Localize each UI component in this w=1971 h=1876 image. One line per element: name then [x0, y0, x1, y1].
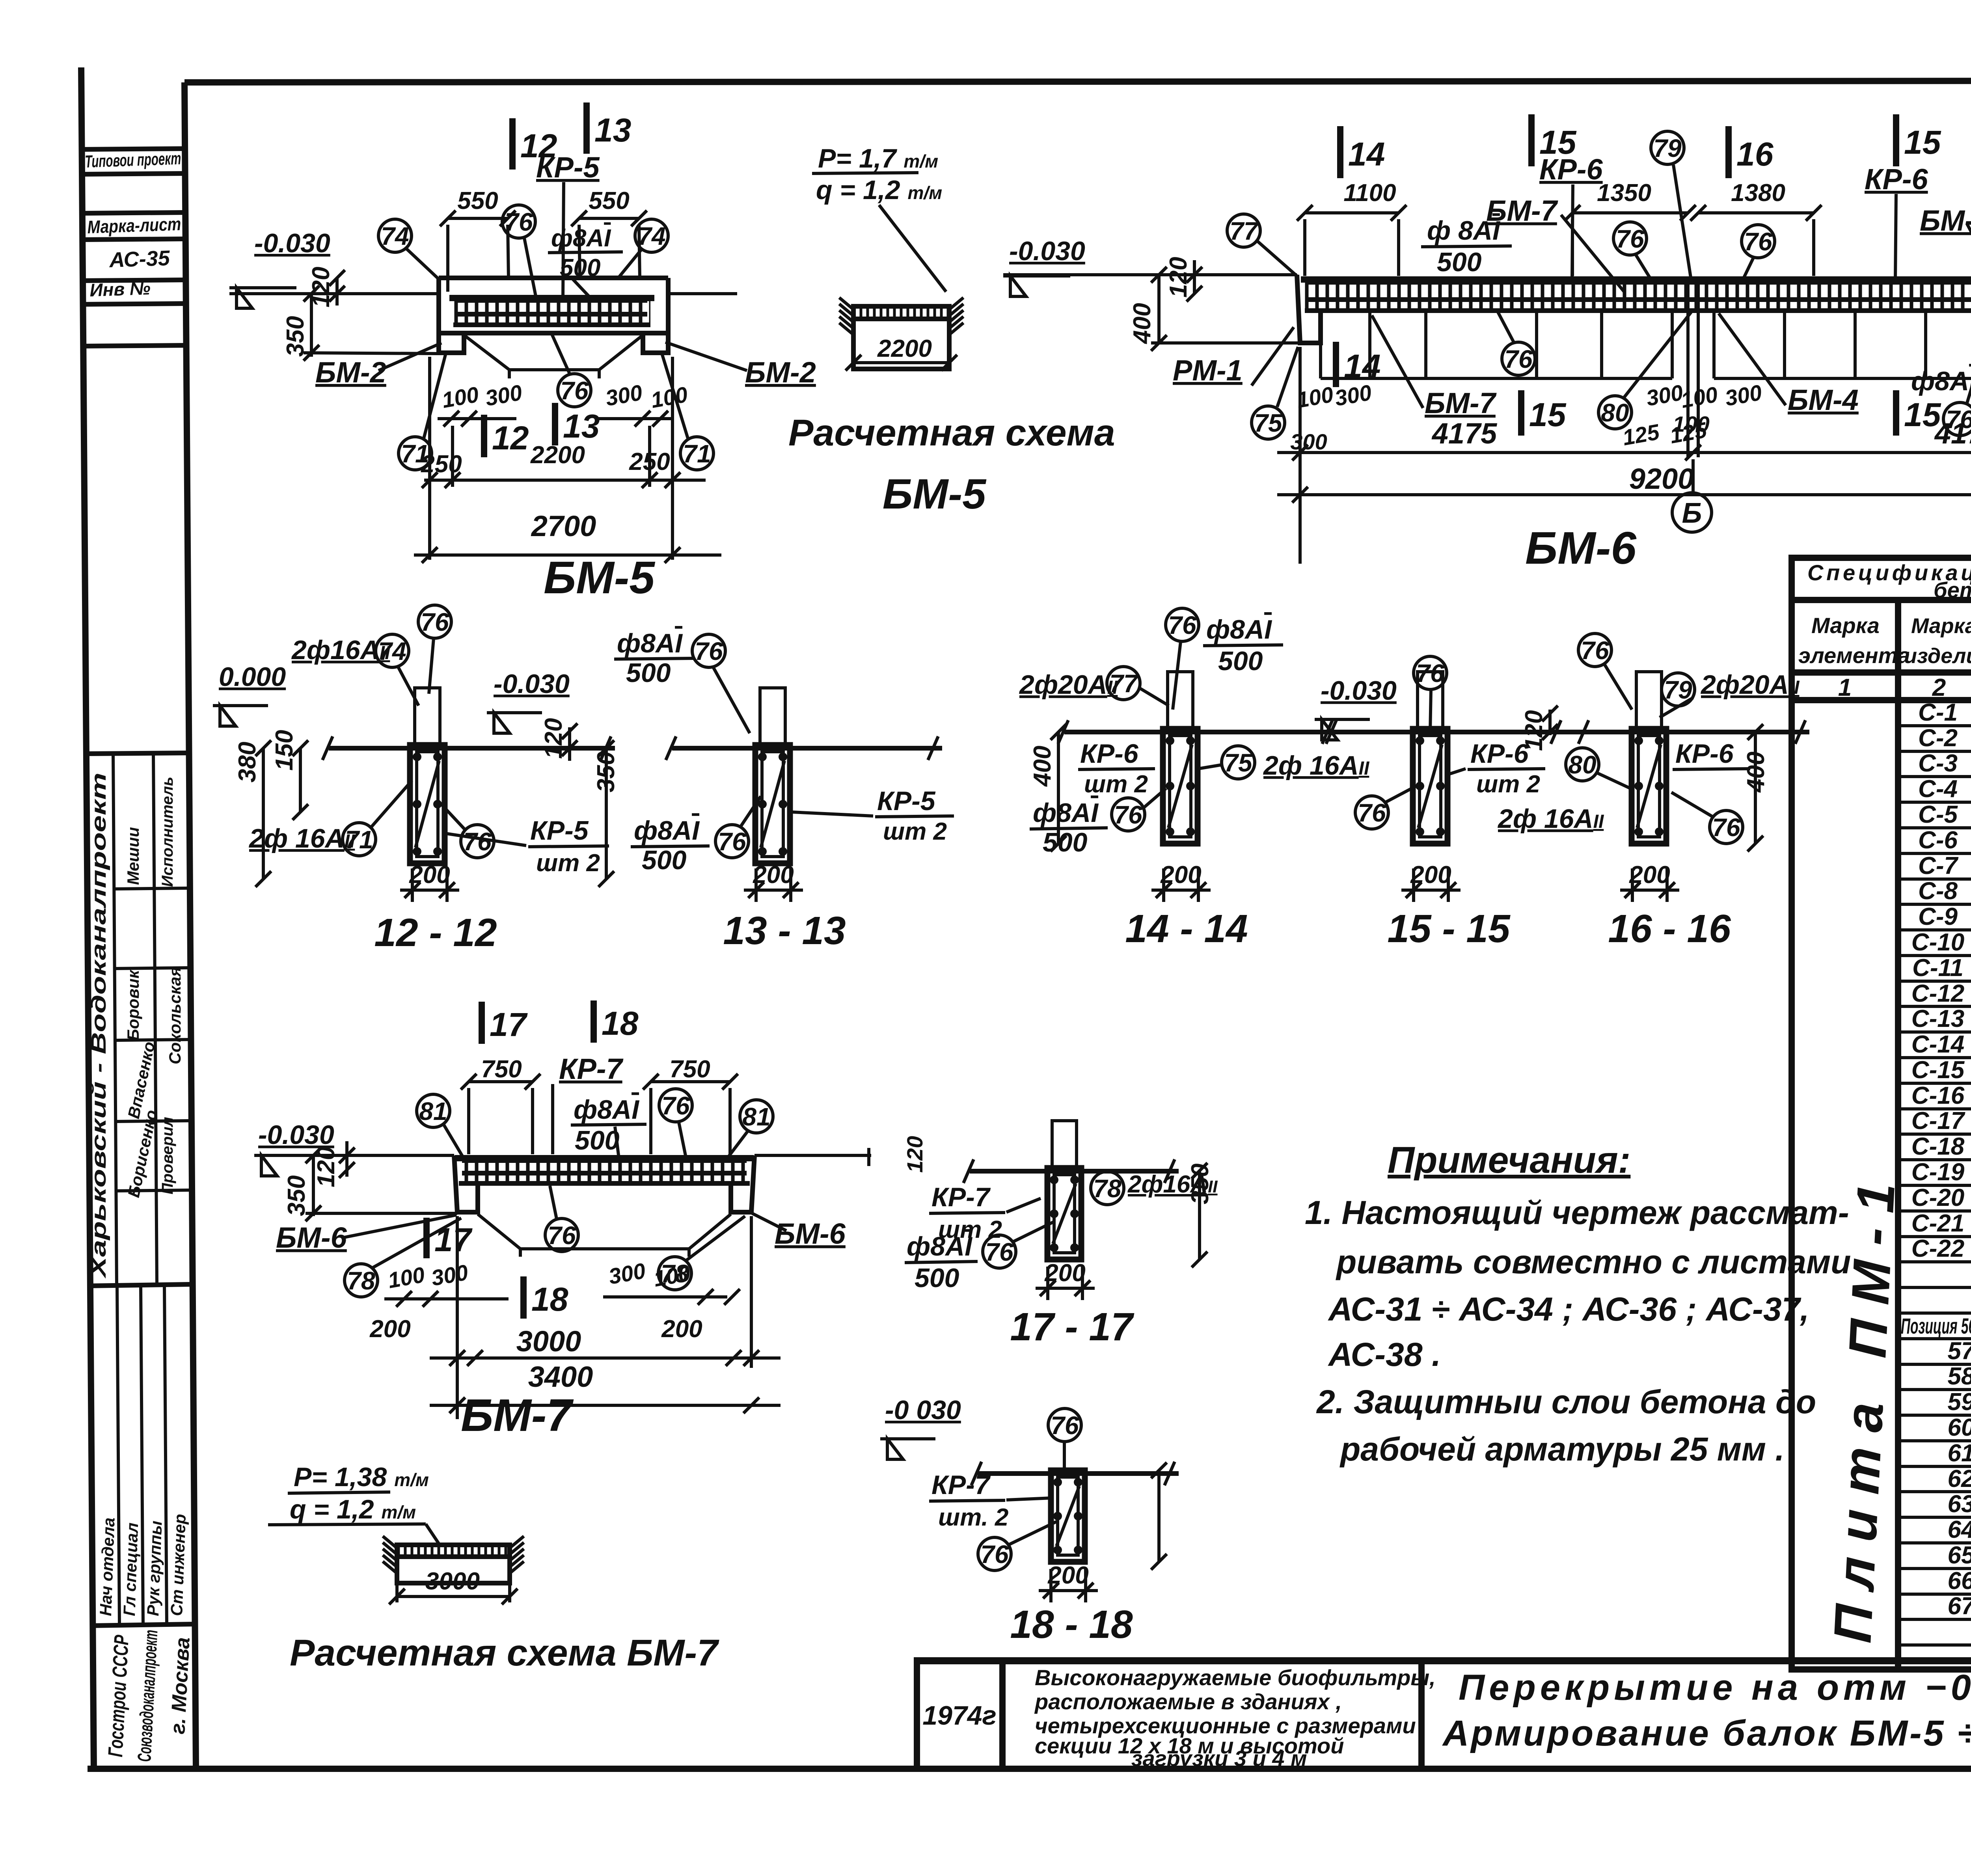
svg-text:С-19: С-19	[1911, 1159, 1965, 1186]
svg-text:ф8АI: ф8АI	[1033, 798, 1099, 828]
svg-text:Боровик: Боровик	[124, 969, 142, 1041]
svg-text:Расчетная схема: Расчетная схема	[788, 412, 1115, 454]
left title strip	[82, 149, 194, 1762]
box АС-35	[83, 280, 186, 281]
svg-text:С-5: С-5	[1918, 801, 1958, 828]
svg-text:Примечания:: Примечания:	[1388, 1139, 1630, 1181]
svg-text:13: 13	[594, 112, 631, 149]
svg-text:78: 78	[1093, 1174, 1121, 1203]
svg-text:2ф 16АII: 2ф 16АII	[248, 823, 356, 853]
section 18-18	[880, 1395, 1179, 1647]
svg-text:76: 76	[1051, 1411, 1079, 1440]
svg-text:q = 1,2 т/м: q = 1,2 т/м	[816, 175, 942, 205]
svg-text:КР-5: КР-5	[536, 151, 600, 184]
svg-text:БМ-6: БМ-6	[775, 1217, 846, 1250]
svg-text:79: 79	[1653, 134, 1682, 162]
svg-text:БМ-4: БМ-4	[1788, 384, 1859, 416]
svg-text:г. Москва: г. Москва	[166, 1637, 194, 1735]
svg-text:Мешии: Мешии	[124, 827, 142, 885]
svg-text:0.000: 0.000	[219, 662, 286, 692]
svg-text:2700: 2700	[531, 510, 596, 542]
svg-text:ф8АI: ф8АI	[574, 1095, 640, 1125]
svg-text:200: 200	[1044, 1259, 1085, 1287]
svg-text:500: 500	[915, 1263, 959, 1293]
svg-text:16 - 16: 16 - 16	[1608, 907, 1731, 951]
svg-text:59: 59	[1948, 1388, 1971, 1416]
svg-text:17: 17	[434, 1221, 473, 1258]
svg-text:С-18: С-18	[1911, 1133, 1965, 1160]
svg-text:Впасенко: Впасенко	[124, 1040, 158, 1120]
section 12-12	[213, 605, 620, 955]
svg-text:380: 380	[234, 742, 261, 782]
svg-text:76: 76	[1712, 813, 1740, 842]
svg-text:Высоконагружаемые биофильтры,: Высоконагружаемые биофильтры,	[1035, 1665, 1436, 1690]
svg-text:80: 80	[1568, 751, 1596, 779]
svg-text:загрузки 3 и 4 м: загрузки 3 и 4 м	[1131, 1746, 1307, 1771]
svg-text:74: 74	[378, 637, 406, 665]
svg-text:БМ-6: БМ-6	[276, 1221, 347, 1254]
svg-text:4175: 4175	[1934, 417, 1971, 450]
svg-text:-0.030: -0.030	[1321, 676, 1397, 706]
beam БМ-5 elevation	[229, 102, 816, 603]
svg-text:550: 550	[589, 187, 629, 214]
svg-text:76: 76	[1114, 801, 1142, 829]
svg-text:шт 2: шт 2	[536, 850, 600, 877]
svg-text:500: 500	[1437, 247, 1482, 277]
svg-text:100: 100	[440, 382, 481, 413]
svg-text:С-1: С-1	[1918, 699, 1958, 726]
svg-text:15: 15	[1529, 396, 1567, 433]
svg-text:81: 81	[742, 1103, 770, 1131]
svg-text:ф8АI: ф8АI	[634, 816, 700, 846]
svg-text:400: 400	[1129, 303, 1156, 345]
svg-text:расположаемые в зданиях ,: расположаемые в зданиях ,	[1034, 1689, 1342, 1714]
svg-text:18 - 18: 18 - 18	[1010, 1602, 1133, 1647]
svg-text:74: 74	[381, 222, 409, 250]
svg-text:3000: 3000	[516, 1325, 581, 1358]
svg-text:рабочей арматуры 25 мм .: рабочей арматуры 25 мм .	[1339, 1431, 1785, 1468]
svg-text:120: 120	[902, 1136, 927, 1173]
svg-text:64: 64	[1948, 1516, 1971, 1543]
svg-text:КР-6: КР-6	[1675, 739, 1734, 769]
svg-text:С-14: С-14	[1911, 1031, 1964, 1058]
svg-text:76: 76	[548, 1221, 576, 1250]
svg-text:Плита ПМ-1: Плита ПМ-1	[1822, 1167, 1907, 1645]
svg-text:13 - 13: 13 - 13	[723, 909, 846, 953]
svg-text:КР-6: КР-6	[1080, 739, 1139, 769]
svg-text:100: 100	[649, 382, 689, 413]
svg-text:P= 1,7 т/м: P= 1,7 т/м	[818, 143, 938, 173]
svg-text:ривать совместно с листами: ривать совместно с листами	[1336, 1243, 1851, 1280]
svg-text:Ст инженер: Ст инженер	[167, 1514, 189, 1617]
svg-text:750: 750	[669, 1056, 710, 1083]
svg-text:300: 300	[429, 1260, 470, 1291]
svg-text:-0.030: -0.030	[258, 1120, 334, 1150]
svg-text:2ф 16АII: 2ф 16АII	[1263, 751, 1370, 781]
svg-text:12 - 12: 12 - 12	[374, 911, 497, 955]
svg-text:78: 78	[347, 1267, 375, 1295]
svg-text:18: 18	[602, 1005, 639, 1042]
svg-text:60: 60	[1948, 1414, 1971, 1441]
svg-text:9200: 9200	[1629, 462, 1694, 495]
svg-text:4175: 4175	[1431, 417, 1498, 450]
svg-text:100: 100	[1679, 382, 1720, 413]
svg-text:С-12: С-12	[1911, 980, 1964, 1007]
svg-text:76: 76	[505, 208, 533, 236]
svg-text:КР-7: КР-7	[559, 1053, 624, 1085]
svg-text:Госстрои СССР: Госстрои СССР	[104, 1634, 133, 1758]
left half verticals	[1895, 600, 1901, 1669]
svg-text:71: 71	[345, 825, 373, 854]
svg-text:АС-31 ÷ АС-34 ; АС-36 ; АС-: АС-31 ÷ АС-34 ; АС-36 ; АС-37,	[1328, 1291, 1809, 1328]
svg-text:550: 550	[457, 187, 498, 214]
svg-text:БМ-5: БМ-5	[883, 470, 987, 518]
signature block	[86, 753, 189, 754]
svg-text:200: 200	[661, 1315, 702, 1343]
svg-text:76: 76	[1616, 225, 1644, 253]
beam БМ-6 elevation	[1003, 114, 1971, 574]
design scheme БМ-7	[268, 1462, 719, 1674]
svg-text:76: 76	[985, 1238, 1013, 1266]
box Инв №	[83, 304, 186, 304]
svg-text:81: 81	[419, 1097, 447, 1125]
svg-text:БМ-2: БМ-2	[315, 356, 386, 389]
svg-text:БМ-5: БМ-5	[544, 552, 655, 603]
svg-text:18: 18	[531, 1281, 568, 1318]
svg-text:КР-7: КР-7	[931, 1182, 991, 1212]
svg-text:57: 57	[1948, 1338, 1971, 1365]
svg-text:1380: 1380	[1731, 179, 1785, 207]
svg-text:С-13: С-13	[1911, 1005, 1964, 1032]
svg-text:16: 16	[1736, 136, 1774, 173]
svg-text:150: 150	[271, 730, 298, 771]
svg-text:500: 500	[560, 254, 600, 281]
svg-text:С-22: С-22	[1911, 1235, 1964, 1262]
svg-text:300: 300	[1290, 429, 1327, 454]
svg-text:Позиция 56: Позиция 56	[1901, 1313, 1971, 1338]
svg-text:АС-38 .: АС-38 .	[1328, 1336, 1441, 1373]
svg-text:75: 75	[1224, 749, 1253, 777]
svg-text:76: 76	[1168, 611, 1196, 639]
svg-text:Инв №: Инв №	[89, 278, 151, 300]
svg-text:250: 250	[421, 451, 462, 478]
svg-text:1974г: 1974г	[922, 1701, 997, 1731]
svg-text:15: 15	[1904, 124, 1941, 161]
svg-text:-0.030: -0.030	[494, 669, 570, 699]
svg-text:ф8АI: ф8АI	[551, 225, 611, 252]
svg-text:Проверил: Проверил	[159, 1117, 176, 1194]
svg-text:76: 76	[560, 376, 589, 405]
svg-text:-0.030: -0.030	[254, 228, 330, 258]
svg-text:С-4: С-4	[1918, 775, 1958, 803]
svg-text:350: 350	[283, 1176, 310, 1216]
specification table	[1792, 558, 1971, 1669]
svg-text:Армирование балок БМ-5 ÷ БМ-: Армирование балок БМ-5 ÷ БМ-7.	[1442, 1713, 1971, 1753]
svg-text:200: 200	[1160, 861, 1201, 889]
svg-text:500: 500	[1218, 646, 1263, 676]
svg-text:С-6: С-6	[1918, 827, 1958, 854]
svg-text:Марка: Марка	[1811, 613, 1880, 638]
svg-text:Харьковский - Водоканалпроект: Харьковский - Водоканалпроект	[88, 773, 110, 1279]
svg-text:С-21: С-21	[1911, 1210, 1964, 1237]
empty box	[84, 345, 186, 346]
svg-text:76: 76	[421, 608, 449, 636]
svg-text:С-10: С-10	[1911, 929, 1964, 956]
svg-text:500: 500	[626, 658, 671, 688]
svg-text:76: 76	[1581, 636, 1609, 665]
svg-text:200: 200	[1410, 861, 1451, 889]
svg-text:С-8: С-8	[1918, 877, 1958, 905]
notes Примечания	[1305, 1139, 1851, 1468]
svg-text:15 - 15: 15 - 15	[1387, 907, 1511, 951]
svg-text:66: 66	[1948, 1567, 1971, 1595]
svg-text:С-2: С-2	[1918, 725, 1958, 752]
svg-text:шт 2: шт 2	[1476, 771, 1540, 798]
svg-text:С-7: С-7	[1918, 852, 1958, 879]
svg-text:ф8АI: ф8АI	[617, 628, 683, 658]
svg-text:300: 300	[1723, 380, 1764, 411]
svg-text:120: 120	[1520, 710, 1548, 751]
svg-text:62: 62	[1948, 1465, 1971, 1492]
svg-text:300: 300	[607, 1258, 647, 1289]
svg-text:КР-5: КР-5	[877, 786, 936, 816]
svg-text:Марка-лист: Марка-лист	[87, 214, 182, 237]
svg-text:300: 300	[483, 380, 524, 411]
svg-text:17 - 17: 17 - 17	[1010, 1305, 1135, 1349]
svg-text:120: 120	[1165, 257, 1192, 298]
svg-text:КР-7: КР-7	[931, 1470, 991, 1500]
svg-text:С-9: С-9	[1918, 903, 1958, 930]
box Марка-лист	[83, 212, 186, 213]
svg-text:61: 61	[1948, 1440, 1971, 1467]
beam БМ-7 elevation	[254, 1000, 871, 1441]
svg-text:71: 71	[683, 440, 711, 468]
svg-text:1350: 1350	[1597, 179, 1651, 207]
svg-text:13: 13	[563, 408, 600, 445]
svg-text:500: 500	[642, 845, 687, 875]
svg-text:БМ-7: БМ-7	[1920, 204, 1971, 237]
svg-text:200: 200	[369, 1315, 410, 1343]
svg-text:Исполнитель: Исполнитель	[159, 777, 176, 887]
svg-text:Типовои проект: Типовои проект	[85, 149, 182, 171]
svg-text:ф8АI: ф8АI	[907, 1231, 973, 1261]
svg-text:-0 030: -0 030	[885, 1395, 961, 1425]
svg-text:P= 1,38 т/м: P= 1,38 т/м	[294, 1462, 429, 1492]
svg-text:С-16: С-16	[1911, 1082, 1965, 1109]
svg-text:17: 17	[490, 1006, 528, 1043]
svg-text:300: 300	[1644, 380, 1685, 411]
svg-text:ф 8АI: ф 8АI	[1427, 216, 1501, 246]
section 14-14	[1019, 608, 1370, 951]
svg-text:3000: 3000	[425, 1568, 480, 1595]
bottom org block	[90, 1624, 194, 1626]
svg-text:Союзводоканалпроект: Союзводоканалпроект	[134, 1629, 162, 1762]
svg-text:С-20: С-20	[1911, 1184, 1964, 1211]
svg-text:Рук группы: Рук группы	[143, 1520, 165, 1616]
box Типовои проект	[82, 149, 185, 149]
svg-text:БМ-7: БМ-7	[461, 1390, 574, 1441]
svg-text:БМ-7: БМ-7	[1425, 387, 1497, 419]
outer box	[1792, 558, 1971, 1669]
svg-text:С-17: С-17	[1911, 1107, 1965, 1135]
svg-text:3400: 3400	[528, 1360, 593, 1393]
svg-text:63: 63	[1948, 1490, 1971, 1518]
section 13-13	[614, 628, 954, 953]
svg-text:2200: 2200	[530, 442, 585, 469]
svg-text:Нач отдела: Нач отдела	[96, 1517, 118, 1617]
svg-text:350: 350	[282, 316, 309, 357]
svg-text:Сокольская: Сокольская	[166, 967, 184, 1064]
svg-text:76: 76	[980, 1540, 1009, 1569]
bottom title block	[917, 1660, 1971, 1818]
svg-text:РМ-1: РМ-1	[1173, 354, 1243, 387]
svg-text:14: 14	[1348, 136, 1385, 173]
svg-text:76: 76	[463, 827, 492, 856]
svg-text:58: 58	[1948, 1363, 1971, 1390]
svg-text:75: 75	[1254, 409, 1283, 437]
svg-text:500: 500	[575, 1125, 620, 1155]
svg-text:-0.030: -0.030	[1009, 236, 1085, 266]
svg-text:300: 300	[604, 380, 644, 411]
svg-text:2ф 16АII: 2ф 16АII	[1497, 804, 1604, 834]
svg-text:750: 750	[481, 1056, 522, 1083]
section 15-15	[1315, 656, 1593, 951]
svg-text:Б: Б	[1682, 497, 1702, 529]
svg-text:БМ-6: БМ-6	[1525, 522, 1637, 574]
section 17-17	[902, 1121, 1218, 1349]
svg-text:1100: 1100	[1343, 179, 1396, 207]
svg-text:2ф20АII: 2ф20АII	[1700, 670, 1800, 700]
svg-text:200: 200	[409, 861, 450, 889]
svg-text:Перекрытие на отм −0.030.: Перекрытие на отм −0.030.	[1459, 1667, 1971, 1708]
svg-text:1. Настоящий чертеж рассмат-: 1. Настоящий чертеж рассмат-	[1305, 1194, 1849, 1231]
svg-text:элемента: элемента	[1798, 643, 1910, 668]
svg-text:76: 76	[695, 637, 723, 665]
svg-text:500: 500	[1043, 827, 1088, 857]
svg-text:12: 12	[492, 419, 529, 456]
design scheme БМ-5	[788, 143, 1115, 518]
svg-text:ф8АI: ф8АI	[1206, 615, 1272, 645]
svg-text:65: 65	[1948, 1542, 1971, 1569]
svg-text:74: 74	[637, 222, 665, 250]
svg-text:Марка: Марка	[1911, 614, 1971, 638]
svg-text:77: 77	[1109, 669, 1139, 698]
svg-text:q = 1,2 т/м: q = 1,2 т/м	[290, 1494, 416, 1524]
svg-text:изделия: изделия	[1904, 644, 1971, 668]
svg-text:БМ-2: БМ-2	[745, 356, 816, 389]
svg-text:шт 2: шт 2	[1084, 771, 1148, 798]
svg-text:100: 100	[386, 1262, 427, 1293]
svg-text:67: 67	[1948, 1593, 1971, 1620]
svg-text:76: 76	[1504, 345, 1533, 373]
svg-text:Гл специал: Гл специал	[120, 1522, 142, 1617]
svg-text:76: 76	[1744, 227, 1772, 256]
svg-text:14: 14	[1344, 348, 1380, 385]
svg-text:КР-6: КР-6	[1539, 153, 1603, 186]
svg-text:шт. 2: шт. 2	[938, 1504, 1008, 1531]
svg-text:400: 400	[1029, 746, 1056, 787]
left data rows	[1898, 699, 1971, 1645]
svg-text:200: 200	[1047, 1562, 1088, 1589]
titles block	[88, 1284, 192, 1286]
svg-text:КР-5: КР-5	[530, 816, 589, 846]
svg-text:200: 200	[753, 861, 794, 889]
svg-text:14 - 14: 14 - 14	[1125, 907, 1248, 951]
section 16-16	[1497, 633, 1809, 951]
svg-text:76: 76	[718, 827, 746, 856]
svg-text:С-11: С-11	[1912, 954, 1964, 982]
svg-text:КР-6: КР-6	[1865, 163, 1928, 196]
svg-text:200: 200	[1629, 861, 1670, 889]
svg-text:Расчетная схема БМ-7: Расчетная схема БМ-7	[290, 1632, 719, 1674]
svg-text:С-3: С-3	[1918, 750, 1958, 777]
svg-text:77: 77	[1230, 217, 1259, 245]
svg-text:шт 2: шт 2	[883, 818, 947, 845]
svg-text:С-15: С-15	[1911, 1056, 1965, 1084]
svg-text:2. Защитныи слои бетона до: 2. Защитныи слои бетона до	[1316, 1383, 1816, 1420]
svg-text:80: 80	[1601, 399, 1629, 427]
svg-text:2200: 2200	[877, 335, 932, 362]
svg-text:ф8АI 500: ф8АI 500	[1911, 366, 1971, 396]
svg-text:76: 76	[661, 1092, 690, 1120]
svg-text:2ф20АII: 2ф20АII	[1019, 670, 1118, 700]
svg-text:АС-35: АС-35	[108, 246, 170, 272]
svg-text:76: 76	[1358, 799, 1386, 827]
